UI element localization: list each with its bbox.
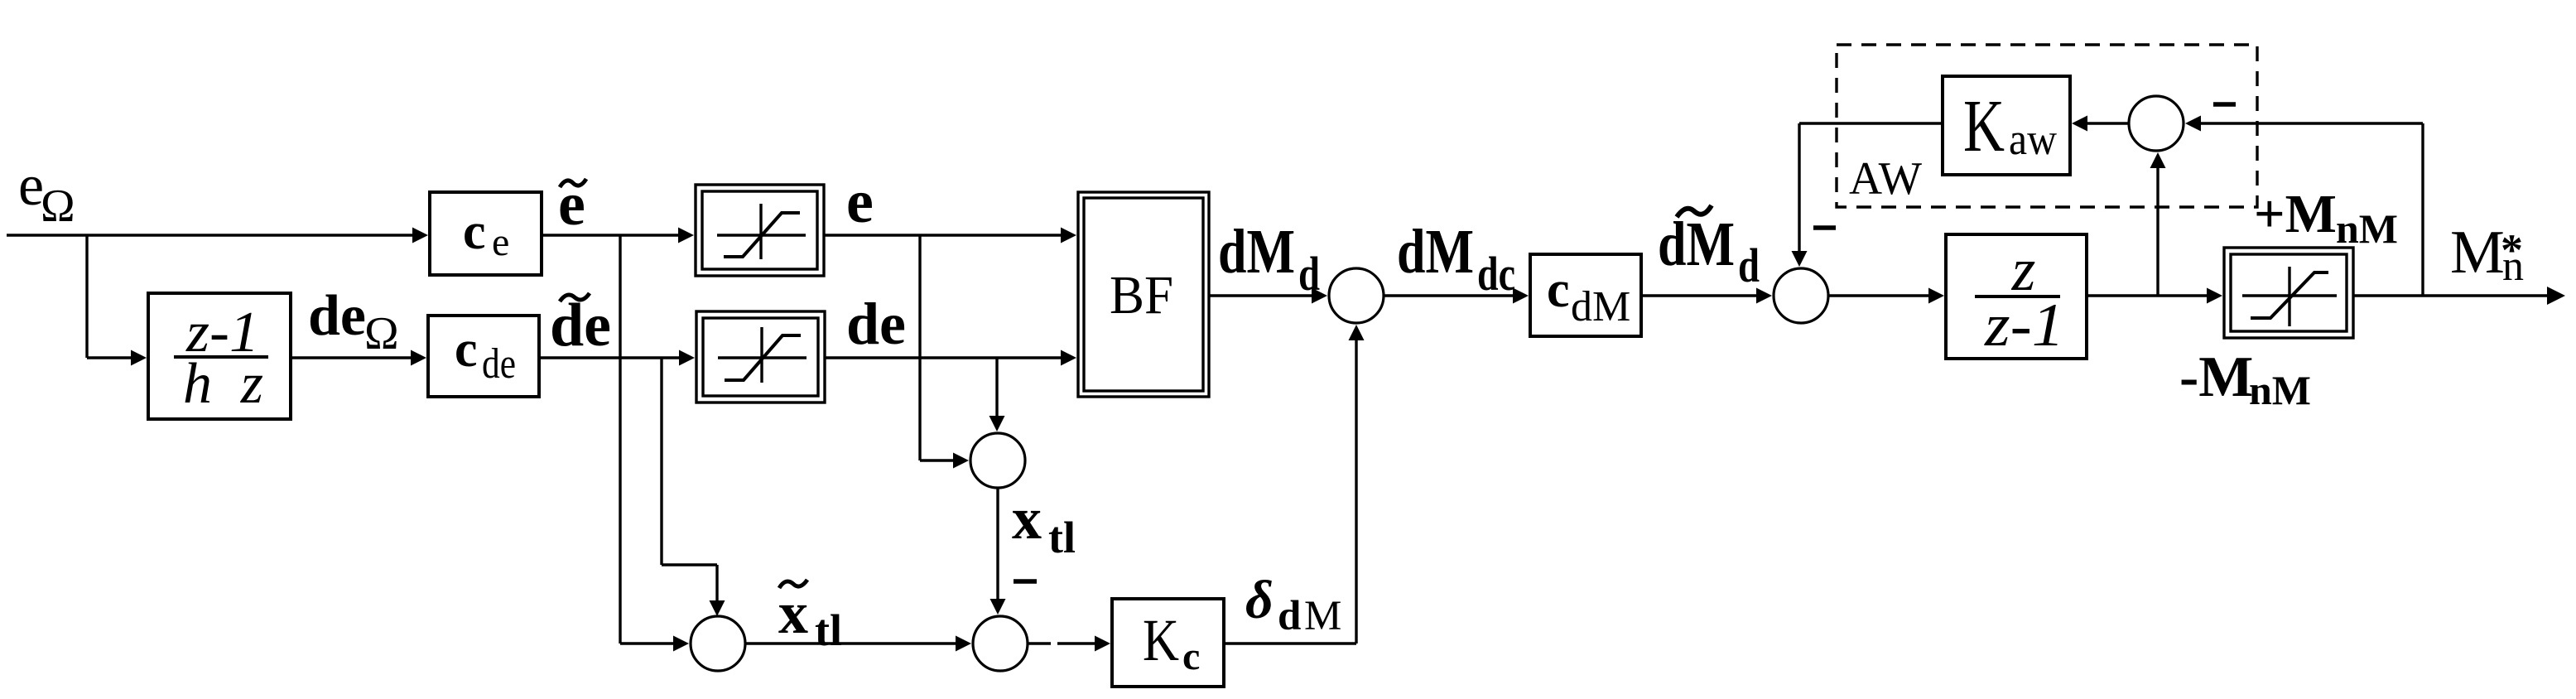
node +M_nM label — [2254, 184, 2398, 252]
node x_tl label — [1012, 485, 1076, 562]
summing node 1 (dM_d + delta_dM) — [1329, 268, 1384, 323]
svg-text:x: x — [1012, 485, 1042, 552]
svg-text:de: de — [482, 340, 516, 388]
node e label — [846, 168, 874, 236]
node de_Omega label — [308, 284, 399, 359]
wire summing node 1 to c_dM — [1384, 288, 1529, 304]
AW summing node — [2129, 96, 2184, 151]
wire branch up into AW summing node bottom — [2150, 152, 2166, 296]
svg-text:dM: dM — [1571, 283, 1630, 330]
wire AW summing node to K_aw — [2072, 116, 2129, 132]
svg-text:M: M — [2450, 219, 2505, 287]
svg-text:c: c — [455, 321, 478, 378]
svg-text:c: c — [1547, 262, 1570, 318]
svg-text:BF: BF — [1110, 265, 1173, 325]
svg-text:c: c — [1182, 634, 1200, 678]
node e_Omega input label — [18, 154, 75, 232]
summing node x_tl — [970, 433, 1025, 488]
wire difference node to K_c (dashed) — [1028, 636, 1110, 652]
node x-tilde-tl label — [778, 580, 842, 655]
minus sign at AW summing node right input — [2213, 102, 2236, 107]
svg-text:M: M — [1304, 593, 1341, 639]
node dM_d label — [1218, 217, 1320, 301]
wire branch e-tilde down to sum x-tilde-tl — [620, 235, 689, 652]
wire BF output to summing node 1 — [1209, 288, 1327, 304]
block K_c — [1112, 599, 1224, 687]
wire branch e down to sum x_tl — [920, 235, 969, 469]
wire saturation 2 output to BF — [825, 350, 1076, 366]
wire de_Omega to c_de — [291, 350, 426, 366]
node de-tilde label — [550, 292, 611, 359]
wire c_e output to saturation 1 — [542, 228, 694, 243]
svg-text:h z: h z — [183, 352, 263, 416]
svg-text:tl: tl — [1048, 513, 1076, 562]
wire c_dM output to summing node 2 — [1641, 288, 1772, 304]
wire x_tl down to difference node — [990, 488, 1006, 615]
node e-tilde label — [558, 171, 586, 239]
svg-text:de: de — [308, 284, 366, 348]
svg-text:-M: -M — [2179, 345, 2253, 409]
svg-text:K: K — [1963, 85, 2005, 167]
wire z/(z-1) output to saturation 3 — [2087, 288, 2222, 304]
svg-text:aw: aw — [2009, 114, 2057, 164]
block K_aw — [1943, 76, 2070, 175]
svg-text:dM: dM — [1658, 210, 1735, 279]
block saturation 3 (output limiter) — [2224, 248, 2353, 338]
wire x-tilde-tl to difference node — [745, 636, 971, 652]
block saturation 2 (limiter on de) — [696, 311, 825, 403]
svg-text:Ω: Ω — [41, 181, 75, 232]
svg-text:δ: δ — [1245, 570, 1274, 630]
node dM_dc label — [1397, 217, 1515, 301]
wire branch from e_Omega down to derivative block — [87, 235, 147, 366]
minus sign at difference node top input — [1014, 579, 1037, 584]
node delta_dM label — [1245, 570, 1341, 639]
svg-text:dc: dc — [1477, 247, 1515, 301]
svg-text:dM: dM — [1218, 217, 1295, 287]
svg-text:x: x — [778, 580, 808, 646]
svg-text:c: c — [463, 204, 486, 260]
svg-text:d: d — [1278, 593, 1301, 639]
wire c_de output to saturation 2 — [539, 350, 695, 366]
block c_dM — [1530, 254, 1641, 336]
wire feedback from output up and left into AW summing node — [2185, 116, 2423, 296]
block c_e — [430, 192, 542, 275]
svg-text:e: e — [492, 220, 509, 264]
block z/(z-1) integrator — [1946, 234, 2087, 359]
svg-text:tl: tl — [815, 605, 842, 655]
wire output M_n* — [2353, 287, 2565, 305]
wire K_c output up to summing node 1 — [1224, 325, 1365, 644]
svg-text:d: d — [1738, 239, 1760, 292]
node de label — [846, 291, 906, 357]
block BF fuzzy controller — [1078, 192, 1209, 397]
node AW label — [1849, 153, 1922, 205]
svg-text:z-1: z-1 — [1984, 292, 2064, 359]
wire branch de down to sum x_tl top — [989, 358, 1005, 431]
dashed box AW anti-windup — [1837, 45, 2257, 207]
svg-text:Ω: Ω — [364, 308, 399, 359]
svg-text:+M: +M — [2254, 184, 2337, 244]
svg-text:dM: dM — [1397, 217, 1474, 287]
svg-text:nM: nM — [2336, 205, 2398, 252]
node -M_nM label — [2179, 345, 2311, 413]
wire summing node 2 to z/(z-1) — [1828, 288, 1944, 304]
wire saturation 1 output to BF — [824, 228, 1076, 243]
summing node 2 (anti-windup subtract) — [1774, 268, 1828, 323]
minus sign at summing node 2 top input — [1813, 225, 1836, 230]
summing node x-tilde-tl — [691, 616, 745, 671]
wire e_Omega input to c_e — [7, 228, 428, 243]
wire K_aw output left and down into summing node 2 — [1792, 123, 1943, 267]
svg-text:de: de — [846, 291, 906, 357]
block c_de — [428, 316, 539, 397]
block saturation 1 (limiter on e) — [696, 185, 824, 276]
svg-text:K: K — [1143, 607, 1179, 673]
node dM_d-tilde label — [1658, 205, 1760, 292]
svg-text:AW: AW — [1849, 153, 1922, 205]
svg-text:n: n — [2502, 243, 2524, 290]
svg-text:e: e — [846, 168, 874, 236]
difference node (x-tilde-tl minus x_tl) — [973, 616, 1028, 671]
wire branch de-tilde down to sum x-tilde-tl top — [662, 358, 725, 616]
block (z-1)/(hz) derivative — [148, 293, 291, 419]
svg-text:nM: nM — [2249, 367, 2311, 413]
node M_n* label — [2450, 219, 2524, 290]
